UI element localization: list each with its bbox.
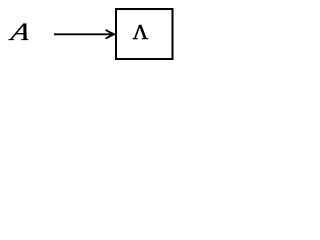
- svg-text:A: A: [7, 17, 33, 45]
- box: [116, 9, 173, 59]
- arrowhead: [106, 30, 114, 38]
- node A: [7, 17, 33, 45]
- svg-text:Λ: Λ: [133, 20, 149, 44]
- wire: [54, 33, 114, 35]
